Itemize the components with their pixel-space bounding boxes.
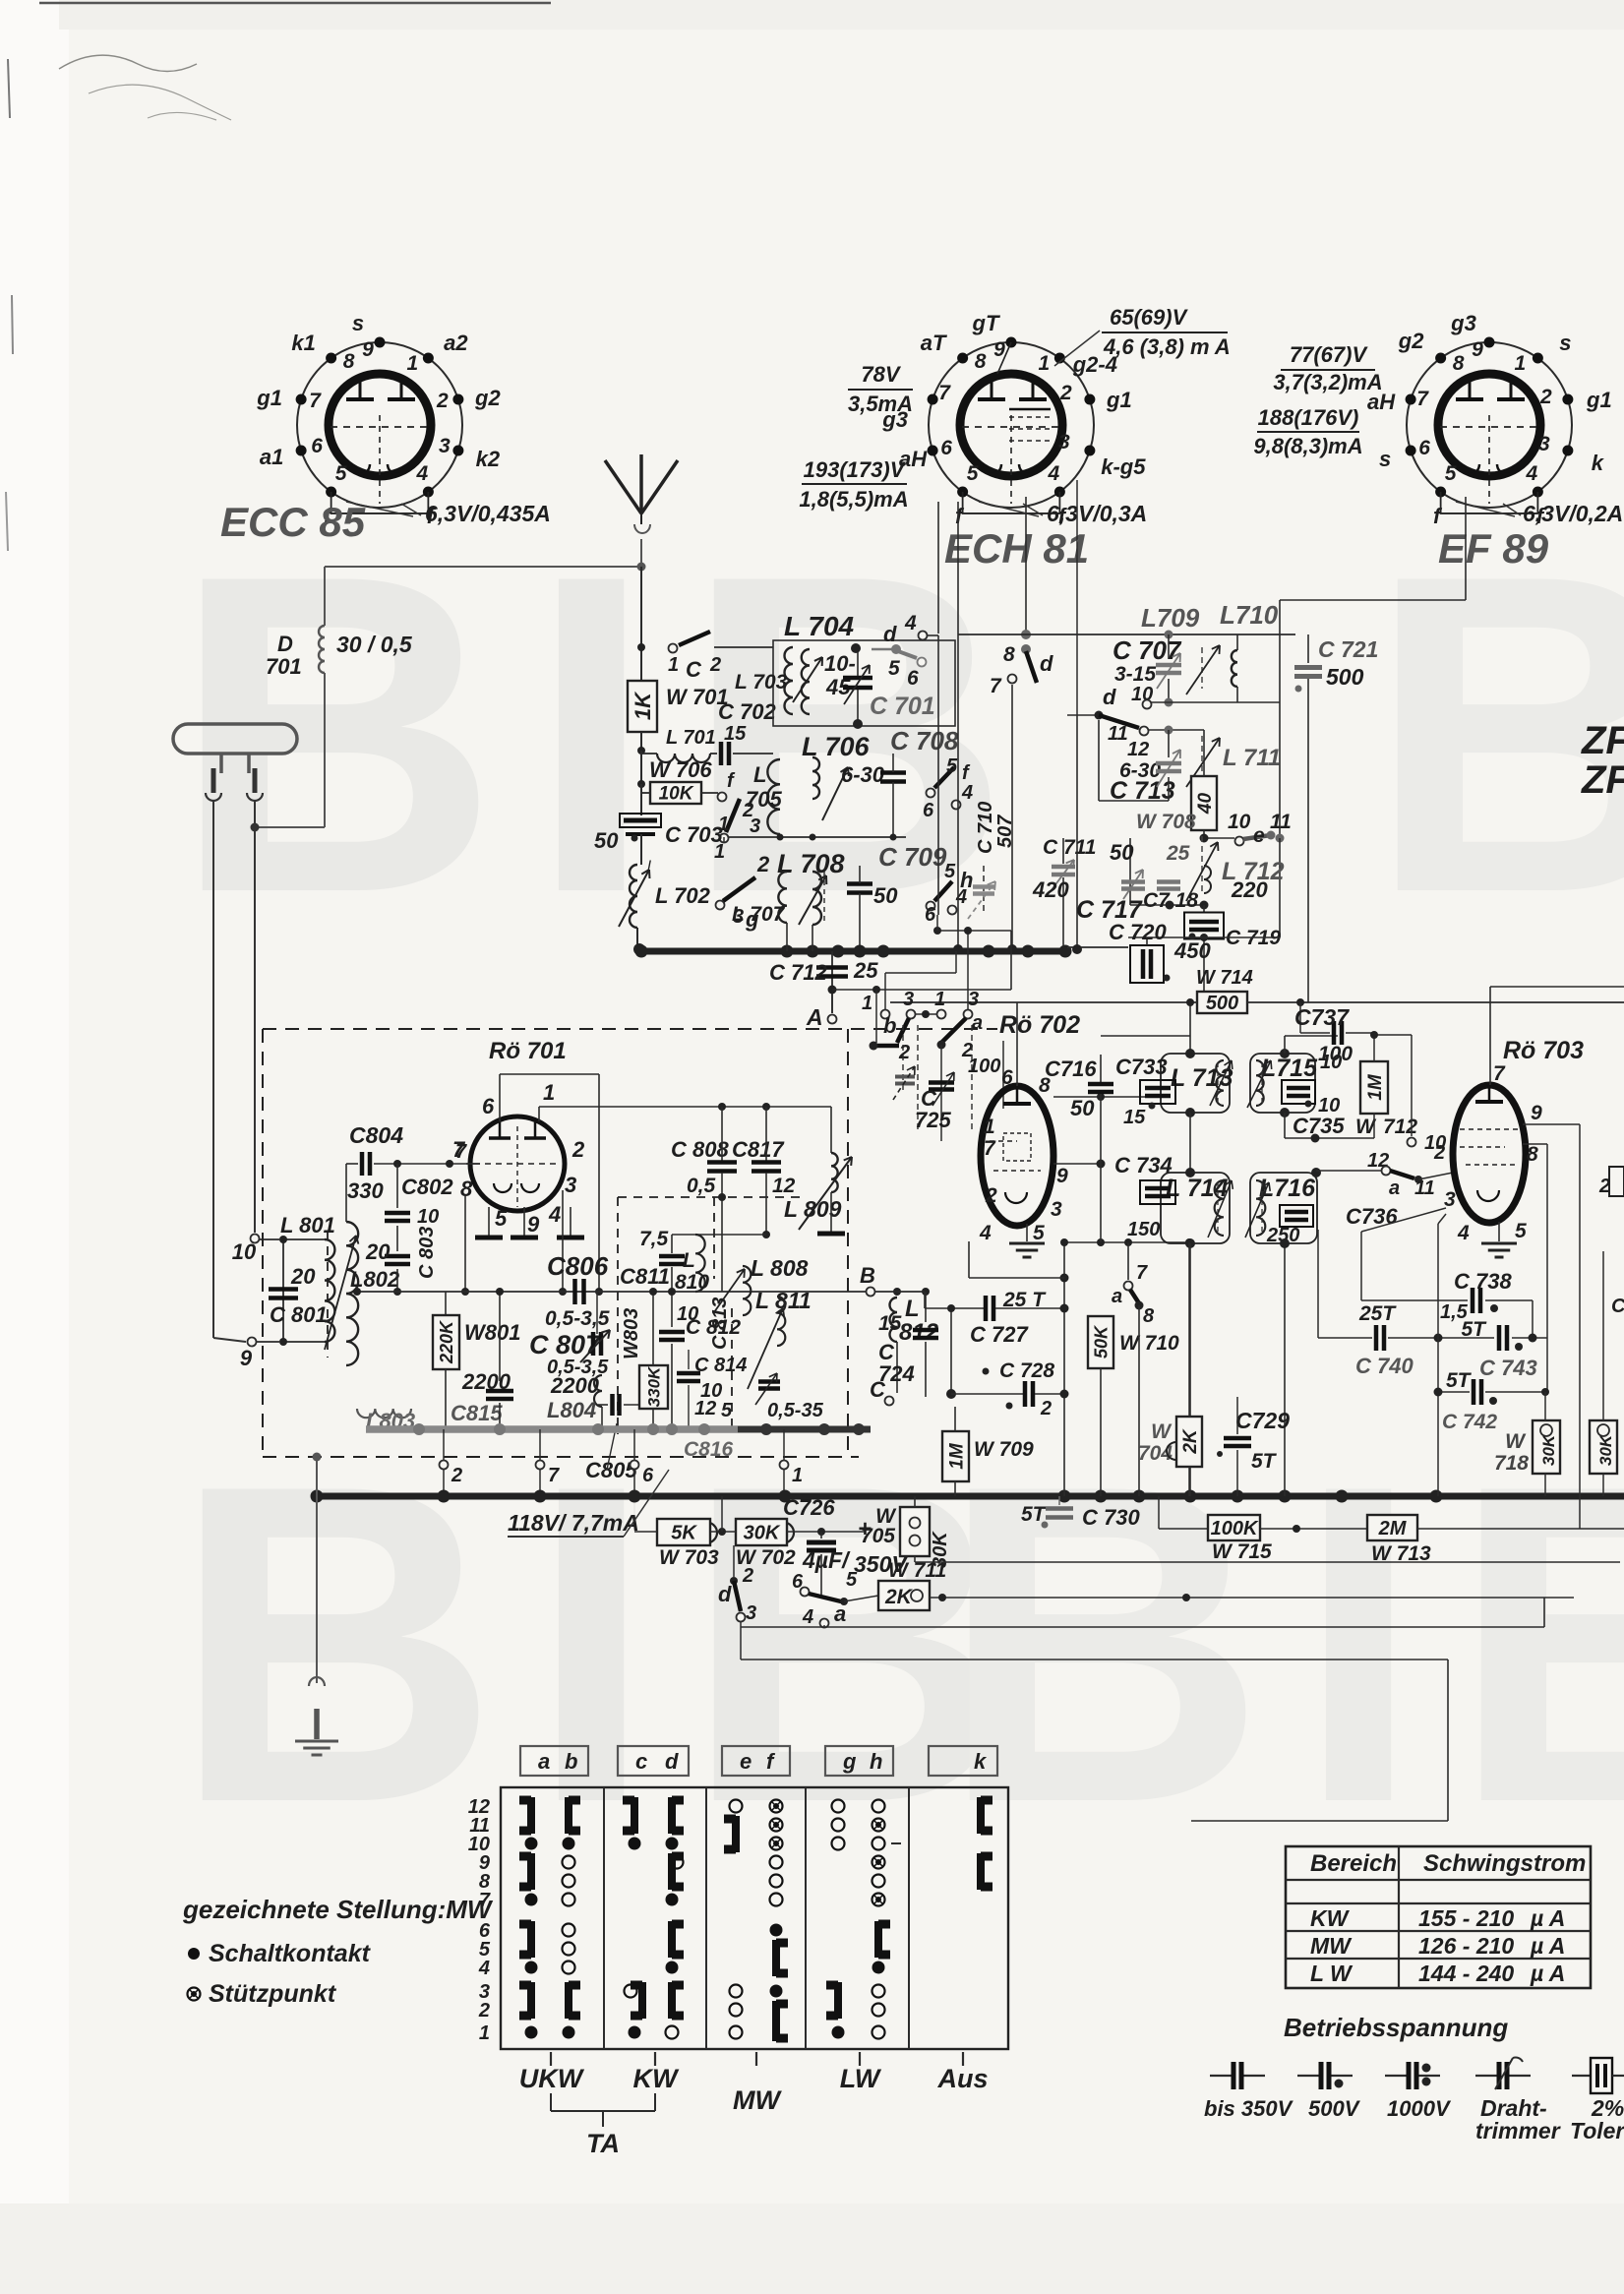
svg-text:77(67)V: 77(67)V <box>1290 342 1369 367</box>
switch contact 5-f-4 <box>927 789 935 798</box>
svg-text:78V: 78V <box>861 362 901 387</box>
svg-text:10-: 10- <box>824 651 856 676</box>
svg-text:KW: KW <box>633 2064 680 2093</box>
svg-text:2: 2 <box>1598 1176 1610 1197</box>
svg-text:6: 6 <box>907 667 919 690</box>
band filter box L704/C701 <box>773 640 955 726</box>
svg-text:e: e <box>1253 824 1265 847</box>
svg-text:W 703: W 703 <box>659 1546 719 1569</box>
svg-text:C 728: C 728 <box>999 1359 1054 1382</box>
coil L701 <box>657 754 710 762</box>
svg-text:C 727: C 727 <box>970 1322 1029 1347</box>
svg-text:718: 718 <box>1494 1452 1529 1475</box>
svg-text:C 738: C 738 <box>1454 1269 1512 1294</box>
svg-text:ZF: ZF <box>1581 758 1624 802</box>
svg-text:L709: L709 <box>1141 603 1200 633</box>
svg-text:50: 50 <box>873 883 898 908</box>
svg-text:C 713: C 713 <box>1110 777 1175 805</box>
svg-text:L: L <box>905 1296 920 1322</box>
svg-text:25 T: 25 T <box>1002 1289 1047 1311</box>
wire antenna vertical <box>640 567 642 681</box>
coil L703 <box>785 647 794 714</box>
svg-text:50: 50 <box>594 828 619 853</box>
capacitor C712 25 <box>831 951 833 1013</box>
wire pin1 y=1125 <box>538 1107 540 1121</box>
switch contact d 11-12 <box>1067 714 1099 716</box>
svg-text:220: 220 <box>1231 877 1268 902</box>
box C717 cluster <box>1129 838 1131 905</box>
capacitor C805 <box>598 1404 608 1406</box>
IF transformer L716 box <box>1250 1173 1317 1243</box>
svg-text:220K: 220K <box>437 1319 456 1364</box>
svg-text:C805: C805 <box>585 1458 637 1482</box>
svg-text:3: 3 <box>968 989 979 1010</box>
svg-text:126 - 210: 126 - 210 <box>1418 1933 1514 1959</box>
capacitor C709 50 <box>847 881 872 886</box>
svg-text:4: 4 <box>904 612 917 634</box>
wire y=1115 Ro702 right <box>1053 1096 1162 1098</box>
wire y=742 <box>1149 729 1204 731</box>
dashed screen L801/L802 <box>327 1231 329 1358</box>
legend Drahttrimmer <box>1475 2075 1498 2077</box>
wire y=1255 <box>672 1234 766 1236</box>
wire y=1053 IF top <box>1101 1035 1190 1037</box>
capacitor C738 1,5 <box>1361 1208 1446 1232</box>
coils L808 L811 with arrows <box>743 1266 751 1315</box>
svg-text:50: 50 <box>1110 840 1134 865</box>
switch contact 5-h-4-6 <box>927 902 935 911</box>
box C713 <box>1098 720 1100 801</box>
svg-text:C 730: C 730 <box>1082 1505 1140 1530</box>
svg-text:4: 4 <box>955 886 967 908</box>
svg-text:10: 10 <box>417 1206 439 1228</box>
tube Rö702 oval <box>997 1011 1082 1037</box>
svg-text:8: 8 <box>1453 352 1465 375</box>
svg-text:aT: aT <box>921 331 947 355</box>
svg-text:6: 6 <box>925 904 936 926</box>
svg-text:d: d <box>665 1749 679 1774</box>
svg-text:1000V: 1000V <box>1387 2096 1452 2121</box>
svg-text:b: b <box>883 1013 896 1038</box>
switch contact 8-d-7 <box>1021 630 1031 639</box>
svg-text:L715: L715 <box>1261 1055 1318 1082</box>
wire y=1687 <box>740 1627 742 1660</box>
coil L704 with trimmer arrow <box>802 649 810 714</box>
svg-text:7: 7 <box>1493 1062 1506 1085</box>
svg-text:10: 10 <box>1228 811 1251 833</box>
svg-text:5: 5 <box>1445 462 1457 485</box>
node 652/763 <box>637 747 645 755</box>
svg-text:UKW: UKW <box>519 2064 585 2093</box>
svg-text:D: D <box>277 632 293 656</box>
resistor W708 40 <box>1191 776 1217 830</box>
svg-text:25: 25 <box>853 958 878 983</box>
svg-text:1M: 1M <box>946 1442 967 1470</box>
wire y=1299 under Ro702 <box>969 1277 1064 1279</box>
svg-text:C802: C802 <box>401 1175 453 1199</box>
svg-text:2: 2 <box>756 852 770 876</box>
svg-text:C 742: C 742 <box>1442 1411 1497 1433</box>
svg-text:7: 7 <box>452 1137 466 1162</box>
switch contact f 1-2-3 <box>718 793 727 802</box>
capacitor C703 50 <box>640 784 642 815</box>
svg-text:C 701: C 701 <box>870 693 935 720</box>
switch table frame <box>501 1787 1008 2049</box>
resistor W701 1K <box>628 681 657 732</box>
svg-text:6: 6 <box>940 437 952 459</box>
svg-text:0,5: 0,5 <box>687 1175 716 1197</box>
svg-text:11: 11 <box>1414 1177 1435 1199</box>
svg-text:2: 2 <box>436 390 449 412</box>
svg-text:5: 5 <box>944 861 956 882</box>
main wire y=1313 UKW <box>357 1291 869 1293</box>
svg-text:trimmer: trimmer <box>1475 2118 1561 2143</box>
svg-text:2: 2 <box>1040 1398 1052 1419</box>
svg-text:C804: C804 <box>349 1122 403 1148</box>
capacitor C727 25T <box>925 1307 984 1309</box>
svg-text:1: 1 <box>543 1080 555 1105</box>
svg-text:6: 6 <box>642 1465 654 1486</box>
switch table column k contacts <box>977 1797 985 1834</box>
svg-text:L 809: L 809 <box>784 1196 842 1222</box>
capacitor C716 50 <box>1100 1055 1102 1082</box>
potentiometer W702 30K <box>736 1519 787 1545</box>
svg-text:3: 3 <box>1538 433 1550 455</box>
Rö701 top connection rectangle <box>499 1074 501 1121</box>
svg-text:9: 9 <box>527 1212 540 1237</box>
variable coil L702 <box>630 865 637 928</box>
svg-text:C806: C806 <box>547 1251 609 1281</box>
Rö701 cathode stubs <box>488 1207 490 1236</box>
svg-text:Rö 703: Rö 703 <box>1503 1037 1584 1064</box>
wire Rö702 top to y=1019 <box>1016 1002 1018 1086</box>
svg-text:B: B <box>860 1263 875 1288</box>
switch table header boxes a-k <box>520 1746 588 1776</box>
svg-text:g: g <box>842 1749 857 1774</box>
svg-text:C811: C811 <box>620 1264 670 1289</box>
Rö703 pin wires 9 and 8 <box>1523 1123 1580 1125</box>
capacitor C728 2 <box>950 1308 952 1394</box>
svg-text:5K: 5K <box>671 1523 697 1544</box>
switch table column c contacts <box>631 1797 638 1834</box>
coil L812 15 C724 <box>875 1291 926 1293</box>
capacitor C701 trimmer <box>843 676 872 681</box>
svg-text:Aus: Aus <box>936 2064 988 2093</box>
svg-text:6: 6 <box>923 800 934 821</box>
svg-text:C736: C736 <box>1346 1204 1398 1229</box>
svg-text:g3: g3 <box>1450 311 1476 335</box>
svg-text:100: 100 <box>968 1056 1000 1077</box>
svg-text:W 709: W 709 <box>974 1438 1034 1461</box>
coil L707 <box>778 872 787 923</box>
trimmer L712 dashed <box>1201 836 1203 893</box>
svg-text:7: 7 <box>309 390 322 412</box>
svg-text:C: C <box>686 657 702 682</box>
terminal 10 <box>1374 1034 1412 1036</box>
switch table column g contacts <box>832 1800 845 1813</box>
svg-text:118V/ 7,7mA: 118V/ 7,7mA <box>508 1510 639 1536</box>
wire L710 right vertical <box>1279 634 1281 838</box>
svg-text:C726: C726 <box>783 1495 835 1520</box>
svg-text:30K: 30K <box>1539 1433 1558 1466</box>
svg-text:5: 5 <box>1515 1220 1527 1242</box>
svg-text:C 734: C 734 <box>1114 1153 1173 1177</box>
svg-text:3-15: 3-15 <box>1114 663 1156 686</box>
svg-text:s: s <box>352 311 364 335</box>
coil L710 <box>1232 650 1237 687</box>
switch table column e contacts <box>730 1800 743 1813</box>
svg-text:4µF/: 4µF/ <box>802 1547 851 1573</box>
svg-text:2: 2 <box>1433 1142 1445 1164</box>
svg-text:9: 9 <box>240 1346 253 1370</box>
svg-text:6: 6 <box>1418 437 1430 459</box>
svg-text:C 814: C 814 <box>694 1355 747 1376</box>
wire pin8 pin3 down <box>464 1195 466 1292</box>
svg-text:705: 705 <box>861 1525 895 1547</box>
switch contact C 1-2 <box>669 644 678 653</box>
legend Stuetzpunkt <box>188 1988 201 2001</box>
svg-text:W803: W803 <box>621 1308 642 1359</box>
svg-text:W 706: W 706 <box>649 757 712 782</box>
capacitor C814 10 12 5 <box>677 1371 700 1376</box>
wire y=1624 long <box>930 1597 1574 1599</box>
svg-text:1: 1 <box>668 654 679 676</box>
trimmer 50 C717 <box>1121 879 1145 884</box>
svg-text:8: 8 <box>1003 643 1015 666</box>
svg-text:C 721: C 721 <box>1318 636 1378 662</box>
svg-text:Rö 702: Rö 702 <box>999 1011 1080 1039</box>
wire EF89 drop <box>1465 497 1467 600</box>
wire Rö703 top to y=1003 <box>1489 987 1491 1085</box>
svg-text:9: 9 <box>1056 1165 1068 1187</box>
svg-text:420: 420 <box>1032 877 1069 902</box>
svg-text:Schwingstrom: Schwingstrom <box>1423 1850 1586 1877</box>
tube socket ECC85 outer/inner circles and pins <box>297 342 462 508</box>
svg-text:L 703: L 703 <box>735 671 788 694</box>
svg-text:C 803: C 803 <box>416 1227 438 1279</box>
svg-text:L716: L716 <box>1259 1175 1316 1202</box>
svg-text:e: e <box>740 1749 752 1774</box>
dashed trimmer arrow L709 <box>1201 647 1203 689</box>
svg-text:330K: 330K <box>645 1365 664 1407</box>
svg-text:100: 100 <box>1318 1043 1353 1065</box>
svg-text:20: 20 <box>365 1239 391 1264</box>
svg-text:5T: 5T <box>1251 1450 1278 1473</box>
switch table column f contacts <box>770 1800 783 1813</box>
svg-text:10K: 10K <box>659 784 694 805</box>
svg-text:LW: LW <box>840 2064 882 2093</box>
svg-text:L 707: L 707 <box>732 903 786 926</box>
svg-text:3: 3 <box>1051 1198 1062 1221</box>
svg-text:a: a <box>1112 1286 1122 1307</box>
svg-text:7: 7 <box>938 382 951 404</box>
svg-text:2: 2 <box>1539 386 1552 408</box>
wire y=953 C719 bottom <box>1128 936 1280 938</box>
svg-text:3,5mA: 3,5mA <box>848 392 913 416</box>
svg-text:3: 3 <box>903 989 914 1010</box>
svg-text:C816: C816 <box>684 1438 734 1461</box>
wire top horizontal to D701 <box>325 566 641 568</box>
svg-text:7: 7 <box>548 1465 560 1486</box>
svg-text:C 709: C 709 <box>878 842 947 872</box>
coil L810 <box>695 1235 705 1292</box>
wire y=1554 with 100K and 2M <box>1159 1528 1208 1530</box>
svg-text:701: 701 <box>266 654 302 679</box>
svg-text:6,3V/0,435A: 6,3V/0,435A <box>425 501 551 526</box>
node 652/658 <box>637 643 645 651</box>
svg-text:d: d <box>1103 685 1116 709</box>
coil L802 with arrow <box>346 1222 358 1365</box>
svg-text:65(69)V: 65(69)V <box>1110 305 1189 330</box>
svg-text:150: 150 <box>1127 1219 1160 1240</box>
svg-text:W 713: W 713 <box>1371 1542 1431 1565</box>
legend capacitor 500V <box>1297 2075 1320 2077</box>
svg-text:a: a <box>538 1749 550 1774</box>
switch contact 10-e-11 <box>1204 837 1234 839</box>
pin circle 10 under C707 <box>1143 700 1152 709</box>
svg-text:4: 4 <box>478 1958 490 1979</box>
capacitor C721 500 <box>1307 634 1309 663</box>
variable coil L809 <box>830 1107 832 1153</box>
svg-text:9: 9 <box>362 338 374 361</box>
svg-text:1: 1 <box>984 1116 995 1138</box>
svg-text:C 711: C 711 <box>1043 836 1096 859</box>
wire drops to bus <box>937 635 939 915</box>
svg-text:9: 9 <box>1531 1102 1542 1124</box>
svg-text:C 703: C 703 <box>665 822 723 847</box>
capacitor C811 7,5 <box>671 1235 673 1253</box>
svg-text:2: 2 <box>742 1565 753 1587</box>
svg-text:Schaltkontakt: Schaltkontakt <box>209 1940 372 1967</box>
svg-text:6-30: 6-30 <box>841 762 885 787</box>
coil L705 <box>767 759 780 834</box>
pin terminal 9 of UKW box <box>248 1338 257 1347</box>
lever a <box>941 1018 966 1043</box>
svg-text:4: 4 <box>1457 1222 1470 1244</box>
svg-text:C 708: C 708 <box>890 726 959 755</box>
svg-text:C 808: C 808 <box>671 1137 729 1162</box>
capacitor C802 10 <box>396 1164 398 1208</box>
svg-text:g1: g1 <box>1586 388 1612 412</box>
svg-text:11: 11 <box>1270 811 1292 833</box>
tube socket EF89 <box>1407 342 1572 508</box>
svg-text:450: 450 <box>1173 938 1211 963</box>
svg-text:1,8(5,5)mA: 1,8(5,5)mA <box>799 487 908 512</box>
svg-text:W: W <box>1505 1430 1527 1453</box>
svg-text:2: 2 <box>478 2000 490 2022</box>
svg-text:30 / 0,5: 30 / 0,5 <box>336 632 413 657</box>
svg-text:3: 3 <box>746 1602 756 1624</box>
svg-text:5: 5 <box>846 1569 858 1591</box>
svg-text:C 712: C 712 <box>769 960 827 985</box>
svg-text:12: 12 <box>694 1398 716 1419</box>
svg-text:b: b <box>565 1749 577 1774</box>
wire right edge partial box <box>1609 1167 1624 1196</box>
svg-text:bis 350V: bis 350V <box>1204 2096 1294 2121</box>
svg-text:a1: a1 <box>260 445 283 469</box>
svg-text:4: 4 <box>979 1222 992 1244</box>
svg-text:k1: k1 <box>291 331 315 355</box>
scan specks top left <box>59 55 197 71</box>
capacitor C742 5T <box>1438 1391 1470 1393</box>
wire D701 bottom to dipole leg <box>255 826 325 828</box>
wire y=645 top <box>958 634 1295 635</box>
svg-text:W 715: W 715 <box>1212 1540 1272 1563</box>
svg-text:7: 7 <box>1416 388 1429 410</box>
svg-text:1: 1 <box>862 993 872 1014</box>
svg-text:2200: 2200 <box>550 1373 600 1398</box>
svg-text:12: 12 <box>772 1175 796 1197</box>
switch contact d 2-3 <box>730 1577 738 1585</box>
wire L803 chassis line <box>357 1409 411 1418</box>
svg-text:507: 507 <box>994 815 1016 848</box>
svg-text:6: 6 <box>792 1571 804 1593</box>
svg-text:L: L <box>683 1249 695 1272</box>
bus gray y=1453 <box>366 1425 738 1433</box>
svg-text:155 - 210: 155 - 210 <box>1418 1905 1514 1931</box>
svg-text:3: 3 <box>565 1173 576 1197</box>
capacitor C804 330 <box>345 1164 347 1222</box>
coil L708 with arrow <box>812 872 821 925</box>
svg-text:0,5-3,5: 0,5-3,5 <box>545 1307 610 1330</box>
svg-text:W 710: W 710 <box>1119 1332 1179 1355</box>
ground symbol <box>295 1740 338 1743</box>
dashed trimmers C725 <box>902 1025 904 1090</box>
wire y=1019 long top <box>890 1001 1197 1003</box>
svg-text:d: d <box>1040 651 1053 676</box>
svg-text:0,5-35: 0,5-35 <box>767 1400 824 1421</box>
tuned circuit C801/L801 <box>283 1238 325 1240</box>
switch table column d contacts <box>668 1797 676 1834</box>
svg-text:L 704: L 704 <box>784 611 855 641</box>
svg-text:5: 5 <box>335 462 347 485</box>
svg-text:1: 1 <box>479 2022 490 2044</box>
svg-text:11: 11 <box>1108 723 1128 745</box>
node B wire to C727 <box>875 1291 925 1293</box>
table Bereich/Schwingstrom <box>1286 1846 1591 1988</box>
svg-text:g2: g2 <box>1398 329 1424 353</box>
svg-text:KW: KW <box>1310 1905 1351 1931</box>
svg-text:EF 89: EF 89 <box>1438 525 1549 572</box>
svg-text:15: 15 <box>1123 1107 1146 1128</box>
svg-text:4,6 (3,8) m A: 4,6 (3,8) m A <box>1103 334 1231 359</box>
TA bracket <box>550 2093 552 2111</box>
svg-text:330: 330 <box>347 1178 384 1203</box>
svg-text:C817: C817 <box>732 1137 785 1162</box>
svg-text:8: 8 <box>460 1177 473 1201</box>
svg-text:2: 2 <box>571 1137 585 1162</box>
svg-text:500V: 500V <box>1308 2096 1361 2121</box>
svg-text:a: a <box>1389 1177 1400 1199</box>
cluster feeds up <box>884 973 886 1009</box>
svg-text:gezeichnete Stellung:MW: gezeichnete Stellung:MW <box>182 1895 494 1924</box>
resistor W801 220K <box>445 1292 447 1315</box>
IF transformer L713 box <box>1161 1054 1230 1113</box>
dashed lines C813 area <box>617 1197 619 1434</box>
svg-text:ECH 81: ECH 81 <box>944 525 1089 572</box>
svg-text:g1: g1 <box>1106 388 1132 412</box>
node 652/797 <box>637 780 645 788</box>
svg-text:4: 4 <box>961 782 973 804</box>
wire A feed y=1006 <box>828 986 837 995</box>
IF transformer L715 box <box>1250 1054 1315 1113</box>
svg-text:Stützpunkt: Stützpunkt <box>209 1980 337 2008</box>
svg-text:L: L <box>753 762 766 787</box>
wire y=1654 bottom <box>740 1622 742 1627</box>
svg-text:5: 5 <box>946 755 958 777</box>
svg-text:2K: 2K <box>884 1586 914 1608</box>
svg-text:10: 10 <box>232 1239 257 1264</box>
